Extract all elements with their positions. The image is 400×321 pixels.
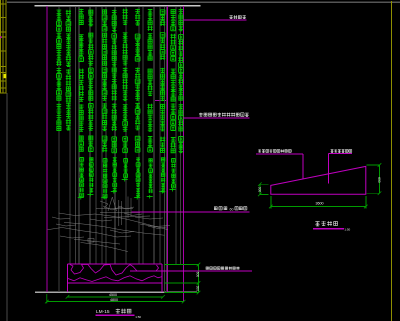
wire top white horizontal xyxy=(35,5,201,7)
plant label text columns upper xyxy=(56,9,183,153)
side view title xyxy=(313,221,351,232)
wire right yellow vertical xyxy=(391,1,393,321)
base height dimension chain xyxy=(165,263,201,295)
svg-text:300: 300 xyxy=(196,286,200,292)
svg-text:1:50: 1:50 xyxy=(344,228,350,232)
svg-text:600: 600 xyxy=(377,177,381,183)
wire left gray vertical xyxy=(6,93,8,321)
callout label pole support xyxy=(214,207,217,210)
callout label rafter xyxy=(258,149,261,152)
svg-text:4500: 4500 xyxy=(109,293,117,297)
side view dimensions xyxy=(257,163,381,208)
svg-text:4800: 4800 xyxy=(110,298,118,302)
wire outer right magenta vertical xyxy=(183,6,185,302)
svg-text:600: 600 xyxy=(196,272,200,278)
callout label wire binding xyxy=(199,113,203,117)
wire inner right magenta vertical xyxy=(167,6,169,292)
left edge yellow table grid xyxy=(0,0,6,93)
rockery sketch lines xyxy=(48,197,170,252)
callout label rockery base xyxy=(206,267,208,269)
wire left magenta vertical xyxy=(46,6,48,292)
side view wall section (trapezoid) xyxy=(271,166,366,194)
wire top dark gray horizontal xyxy=(7,1,400,3)
bamboo pole verticals xyxy=(59,7,181,293)
bottom width dimensions xyxy=(45,293,185,303)
svg-text:60: 60 xyxy=(230,207,234,211)
wire ground line xyxy=(35,291,197,293)
svg-text:300: 300 xyxy=(257,187,261,193)
wire small magenta stub xyxy=(155,99,168,101)
callout label top (fence cap) xyxy=(229,15,232,19)
main drawing title LM-15 elevation xyxy=(95,309,141,319)
planter base with rock relief xyxy=(68,264,163,292)
svg-text:1:50: 1:50 xyxy=(135,315,141,319)
svg-text:LM-15: LM-15 xyxy=(96,309,110,315)
svg-text:3600: 3600 xyxy=(316,202,324,206)
plant label text columns lower xyxy=(78,157,176,199)
callout label cap strip xyxy=(331,150,334,153)
